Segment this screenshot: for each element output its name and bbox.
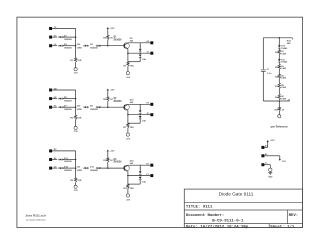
node clamp junction xyxy=(139,114,141,116)
wire pin M2 to bus xyxy=(52,89,76,91)
input pin P3 GND xyxy=(261,163,268,167)
svg-text:68K: 68K xyxy=(287,43,291,45)
svg-text:-15V: -15V xyxy=(73,72,78,74)
power -15V port xyxy=(126,194,131,202)
power -15V port xyxy=(73,126,78,133)
svg-text:1/4W: 1/4W xyxy=(281,97,286,100)
power +10V port xyxy=(267,140,276,143)
wire xyxy=(278,62,280,64)
wire emitter to resistor xyxy=(127,176,129,185)
node bus-row3 junction xyxy=(75,45,77,47)
svg-text:1N4148: 1N4148 xyxy=(90,46,98,49)
wire input bus xyxy=(75,151,77,178)
wire output 2 xyxy=(128,175,150,177)
wire main column top xyxy=(278,38,280,45)
svg-text:+10V: +10V xyxy=(270,140,275,142)
wire emitter to resistor xyxy=(127,53,129,62)
svg-text:15K: 15K xyxy=(77,60,81,62)
resistor R21 xyxy=(275,65,286,71)
output pin F1 xyxy=(146,174,153,177)
diode D3 xyxy=(84,45,89,47)
wire resistor to base node xyxy=(107,40,109,46)
wire diode D1 to bus xyxy=(63,36,76,38)
svg-text:Date: 10/27/2012 18:24:30p: Date: 10/27/2012 18:24:30p xyxy=(186,224,249,229)
wire diode D12 to bus xyxy=(63,167,76,169)
wire +10V top rail xyxy=(263,37,292,39)
diode D2 1N4148 xyxy=(59,44,73,49)
resistor R30 xyxy=(274,107,284,111)
svg-text:Document Number:: Document Number: xyxy=(186,213,224,218)
diode D17 xyxy=(278,59,288,64)
wire collector to output xyxy=(128,164,150,166)
wire diode D2 to bus xyxy=(63,45,76,47)
clamp diode lower xyxy=(139,55,147,62)
wire to lower resistor xyxy=(278,101,280,107)
svg-text:2N3639: 2N3639 xyxy=(113,101,122,103)
resistor R20 xyxy=(275,50,286,56)
wire pin S2 xyxy=(52,159,57,161)
resistor R23 xyxy=(275,83,286,89)
wire xyxy=(278,70,280,74)
wire resistor to supply xyxy=(127,189,129,194)
svg-text:1/4W: 1/4W xyxy=(281,77,286,80)
clamp diode lower xyxy=(139,177,147,184)
diode D16 xyxy=(278,45,288,50)
svg-text:1N4148: 1N4148 xyxy=(64,169,72,172)
power -15V port xyxy=(126,133,131,141)
input pin P2 -15V xyxy=(261,154,268,158)
svg-text:1N4148: 1N4148 xyxy=(64,46,72,49)
node bus-row3 junction xyxy=(75,167,77,169)
wire diode D7 to bus xyxy=(63,106,76,108)
resistor R5 15K xyxy=(70,115,82,119)
node emitter-output junction xyxy=(127,114,128,116)
svg-text:Sheet: 1/1: Sheet: 1/1 xyxy=(270,224,295,229)
diode D14 xyxy=(96,167,101,169)
svg-text:-15V: -15V xyxy=(126,200,131,202)
wire pin L2 xyxy=(52,45,57,47)
label D5 xyxy=(130,38,134,43)
svg-text:1/4W: 1/4W xyxy=(281,86,286,89)
svg-text:so-much-stuff.com: so-much-stuff.com xyxy=(26,219,46,222)
wire input bus xyxy=(75,90,77,115)
wire to base node xyxy=(100,45,124,47)
wire left branch xyxy=(262,38,264,69)
wire emitter xyxy=(127,110,129,115)
wire to base node xyxy=(100,106,124,108)
svg-text:1/4W: 1/4W xyxy=(281,52,286,55)
wire collector to output xyxy=(128,103,150,105)
svg-text:Jose R111.sch: Jose R111.sch xyxy=(25,214,46,218)
wire pin P3 to ground xyxy=(265,165,271,168)
svg-text:1N4148: 1N4148 xyxy=(64,160,72,163)
svg-text:1N4148: 1N4148 xyxy=(90,108,98,111)
clamp diode upper xyxy=(139,49,142,52)
wire clamp to emitter resistor xyxy=(128,57,140,61)
value label 100 1/4W xyxy=(77,106,83,111)
wire resistor to -15V xyxy=(75,182,77,185)
svg-text:-15V: -15V xyxy=(126,139,131,141)
output pin H2 xyxy=(146,41,153,44)
page border frame xyxy=(17,17,303,227)
diode D8 xyxy=(84,106,89,108)
wire resistor to base node xyxy=(107,162,109,168)
power -15V port xyxy=(126,72,131,80)
node emitter-output junction xyxy=(127,175,128,177)
input pin T2 xyxy=(49,27,57,30)
node bus-row3 junction xyxy=(75,106,77,108)
node base junction xyxy=(107,106,109,108)
power -15V port xyxy=(278,115,281,118)
input pin N2 xyxy=(49,97,57,100)
wire collector to output xyxy=(128,42,150,44)
svg-text:1N4148: 1N4148 xyxy=(90,169,98,172)
svg-text:1N4148: 1N4148 xyxy=(64,38,72,41)
diode D1 1N4148 xyxy=(59,36,73,41)
wire input bus xyxy=(75,29,77,58)
resistor R1 15K xyxy=(70,58,82,62)
node bus-row2 junction xyxy=(75,98,77,100)
wire clamp from collector line xyxy=(140,104,142,110)
input pin P1 +10V xyxy=(261,144,268,149)
resistor R11 1K5 xyxy=(123,184,134,190)
label D13 1N4148 xyxy=(90,167,98,172)
node emitter-output junction xyxy=(127,52,128,54)
label D10 xyxy=(130,99,135,104)
diode D11 1N4148 xyxy=(59,158,73,163)
wire to base node xyxy=(100,167,124,169)
clamp diode lower xyxy=(139,116,147,123)
input pin M2 xyxy=(49,88,57,91)
svg-text:1N4148: 1N4148 xyxy=(64,108,72,111)
transistor Q3 2N3639 xyxy=(113,159,129,171)
resistor R6 1K xyxy=(103,97,113,101)
label D15 xyxy=(130,160,135,165)
svg-text:-15V: -15V xyxy=(73,131,78,133)
label D8 1N4148 xyxy=(90,106,98,111)
title block frame xyxy=(184,189,302,227)
wire resistor to base node xyxy=(107,101,109,107)
svg-text:1/4W: 1/4W xyxy=(281,67,286,70)
wire +10V to resistor xyxy=(107,152,109,158)
svg-text:2N3639: 2N3639 xyxy=(113,39,122,41)
clamp diode upper xyxy=(139,110,142,113)
power -15V port xyxy=(73,68,78,75)
input pin U2 xyxy=(49,166,57,169)
capacitor C7 xyxy=(261,69,272,75)
value label 100 1/4W xyxy=(77,167,83,172)
svg-text:B-C9-9111-0-1: B-C9-9111-0-1 xyxy=(212,220,244,224)
svg-text:Diode Gate 9111: Diode Gate 9111 xyxy=(219,192,254,197)
wire left branch lower xyxy=(263,71,279,101)
wire xyxy=(278,79,280,83)
wire clamp to emitter resistor xyxy=(128,180,140,184)
svg-text:1N4148: 1N4148 xyxy=(64,99,72,102)
resistor R7 1K5 xyxy=(123,123,134,129)
svg-text:+10V: +10V xyxy=(110,28,116,30)
output pin J2 xyxy=(146,113,153,116)
power -15V port xyxy=(73,185,78,192)
diode D4 xyxy=(96,45,101,47)
diode D12 1N4148 xyxy=(59,167,73,172)
output pin J1 xyxy=(146,51,153,54)
resistor R2 1K xyxy=(103,35,113,39)
title block row lines xyxy=(184,202,302,227)
ground xyxy=(268,168,273,178)
power label R24 xyxy=(287,38,293,45)
svg-text:1N645: 1N645 xyxy=(281,61,288,64)
node clamp junction xyxy=(139,175,141,177)
svg-text:-15V: -15V xyxy=(126,77,131,79)
wire emitter xyxy=(127,171,129,176)
diode D7 1N4148 xyxy=(59,106,73,111)
wire pin P1 to +10V xyxy=(265,141,268,147)
wire pin R2 to bus xyxy=(52,150,76,152)
power +10V port xyxy=(107,27,115,30)
caption pwr Reference xyxy=(271,126,289,129)
transistor Q1 2N3639 xyxy=(113,37,129,49)
diode D13 xyxy=(84,167,89,169)
wire resistor to -15V xyxy=(75,120,77,127)
node bus-row2 junction xyxy=(75,36,77,38)
node base junction xyxy=(107,167,109,169)
output pin H1 xyxy=(146,103,153,106)
node base junction xyxy=(107,45,109,47)
wire -15V bottom rail xyxy=(279,99,290,101)
wire pin N2 xyxy=(52,98,57,100)
input pin S2 xyxy=(49,158,57,161)
wire output 2 xyxy=(128,52,150,54)
wire +10V to resistor xyxy=(107,30,109,36)
wire resistor to supply xyxy=(127,128,129,133)
diode D6 1N4148 xyxy=(59,97,73,102)
svg-text:15K: 15K xyxy=(77,180,81,182)
svg-text:15K: 15K xyxy=(77,118,81,120)
input pin K2 xyxy=(49,35,57,38)
svg-text:-15V: -15V xyxy=(73,190,78,192)
svg-text:+10V: +10V xyxy=(110,90,116,92)
power +10V port xyxy=(107,150,115,153)
svg-text:2N3639: 2N3639 xyxy=(113,162,122,164)
input pin P2 xyxy=(49,106,57,109)
label D3 1N4148 xyxy=(90,44,98,49)
transistor Q2 2N3639 xyxy=(113,98,129,110)
svg-text:1N645: 1N645 xyxy=(281,47,288,50)
wire pin T2 to bus xyxy=(52,28,76,30)
resistor R9 15K xyxy=(70,178,82,182)
wire clamp from collector line xyxy=(140,43,142,49)
wire diode D11 to bus xyxy=(63,159,76,161)
wire xyxy=(278,89,280,95)
wire to -15V port xyxy=(278,111,280,115)
svg-text:-15V: -15V xyxy=(282,161,287,163)
svg-text:+10V: +10V xyxy=(110,151,116,153)
node top rail junction xyxy=(279,37,281,39)
clamp diode upper xyxy=(139,171,142,174)
svg-text:TITLE: 9111: TITLE: 9111 xyxy=(186,206,213,210)
node bottom rail junction xyxy=(279,100,281,102)
resistor R24 xyxy=(275,94,286,100)
power -15V port arrow xyxy=(279,159,287,163)
power +10V port xyxy=(107,89,115,92)
input pin L2 xyxy=(49,44,57,47)
value label 100 1/4W xyxy=(77,44,83,49)
wire resistor to supply xyxy=(127,66,129,71)
node clamp junction xyxy=(139,52,141,54)
wire +10V to resistor xyxy=(107,91,109,97)
wire clamp to emitter resistor xyxy=(128,119,140,123)
wire diode D6 to bus xyxy=(63,98,76,100)
input pin R2 xyxy=(49,149,57,152)
wire xyxy=(278,55,280,59)
wire clamp from collector line xyxy=(140,165,142,171)
wire pin P2 to -15V xyxy=(265,156,280,160)
wire pin K2 xyxy=(52,36,57,38)
resistor R22 xyxy=(275,74,286,80)
wire xyxy=(278,48,280,50)
svg-text:GND: GND xyxy=(268,176,273,178)
resistor R10 1K xyxy=(103,158,113,162)
resistor R3 1K5 xyxy=(123,62,134,68)
svg-text:REV:: REV: xyxy=(289,214,299,218)
wire resistor to -15V xyxy=(75,62,77,67)
diode D9 xyxy=(96,106,101,108)
wire emitter to resistor xyxy=(127,115,129,124)
output pin E1 xyxy=(146,163,153,166)
wire output 2 xyxy=(128,114,150,116)
wire pin P2 xyxy=(52,106,57,108)
svg-text:0.1u: 0.1u xyxy=(267,73,272,75)
svg-text:pwr Reference: pwr Reference xyxy=(271,126,289,129)
wire emitter xyxy=(127,49,129,54)
node bus-row2 junction xyxy=(75,159,77,161)
wire pin U2 xyxy=(52,167,57,169)
